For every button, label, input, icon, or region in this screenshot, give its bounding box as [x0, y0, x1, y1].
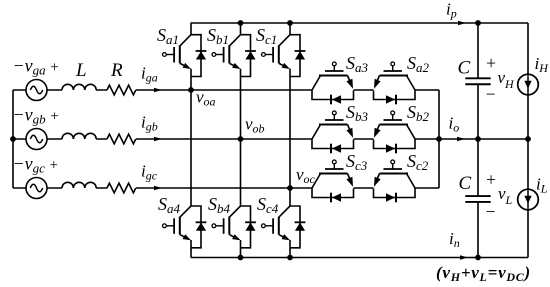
- node cap midpoint: [475, 136, 481, 142]
- resistor R phase a: [107, 85, 136, 95]
- node voc: [287, 185, 293, 191]
- transistor Sc4: [262, 206, 306, 248]
- transistor Sc2: [374, 160, 416, 202]
- wire bottom DC rail n: [191, 257, 528, 259]
- wire leg b: [240, 23, 242, 258]
- arrow ip: [458, 21, 466, 26]
- transistor Sb2: [374, 111, 416, 153]
- capacitor C lower: [465, 196, 490, 202]
- wire right load branch: [527, 23, 529, 258]
- wire phase a: [13, 89, 439, 91]
- AC source vgb: [26, 129, 47, 150]
- wire leg a: [190, 23, 192, 258]
- node top rail leg b: [238, 20, 244, 26]
- transistor Sa2: [374, 62, 416, 104]
- wire left source bus: [12, 90, 14, 188]
- AC source vgc: [26, 178, 47, 199]
- wire capacitor branch: [477, 23, 479, 258]
- node dot left bus b: [10, 136, 16, 142]
- arrow igc: [154, 186, 162, 191]
- AC source vga: [26, 80, 47, 101]
- wire top DC rail p: [191, 22, 529, 24]
- wire phase c: [13, 187, 439, 189]
- inductor L phase a: [62, 84, 96, 90]
- arrow iga: [154, 88, 162, 93]
- arrow in: [460, 255, 468, 260]
- transistor Sa3: [312, 62, 354, 104]
- wire midpoint rail o: [438, 90, 440, 188]
- node top rail cap: [475, 20, 481, 26]
- wire io to capacitor midpoint: [439, 138, 528, 140]
- svg-text:−: −: [485, 202, 497, 222]
- transistor Sc3: [312, 160, 354, 202]
- svg-text:+: +: [485, 53, 497, 73]
- svg-text:+: +: [485, 169, 497, 189]
- node vob: [238, 136, 244, 142]
- node voa: [188, 87, 194, 93]
- transistor Sc1: [262, 35, 306, 77]
- node bottom rail leg c: [287, 255, 293, 261]
- node top rail leg c: [287, 20, 293, 26]
- svg-text:−: −: [485, 84, 497, 104]
- resistor phase b: [107, 134, 136, 144]
- svg-text:C: C: [459, 173, 472, 194]
- node o rail cross: [436, 136, 442, 142]
- node load midpoint: [525, 136, 531, 142]
- transistor Sb4: [212, 206, 256, 248]
- inductor phase c: [62, 182, 96, 188]
- transistor Sb1: [212, 35, 256, 77]
- arrow io: [457, 137, 465, 142]
- transistor Sb3: [312, 111, 354, 153]
- svg-text:L: L: [75, 60, 87, 81]
- resistor phase c: [107, 183, 136, 193]
- current source iH: [518, 74, 539, 95]
- svg-text:R: R: [110, 60, 123, 81]
- svg-text:C: C: [458, 58, 471, 79]
- transistor Sa4: [163, 206, 207, 248]
- wire phase b: [13, 138, 439, 140]
- capacitor C upper: [465, 78, 490, 84]
- node bottom rail cap: [475, 255, 481, 261]
- arrow igb: [154, 137, 162, 142]
- wire leg c: [289, 23, 291, 258]
- transistor Sa1: [163, 35, 207, 77]
- current source iL: [518, 189, 539, 210]
- node bottom rail leg b: [238, 255, 244, 261]
- inductor phase b: [62, 133, 96, 139]
